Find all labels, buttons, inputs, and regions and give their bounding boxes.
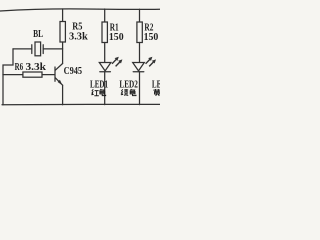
svg-text:LED1: LED1 [90, 80, 108, 91]
svg-text:3.3k: 3.3k [69, 32, 88, 43]
svg-text:BL: BL [33, 29, 43, 40]
svg-text:R6: R6 [15, 62, 24, 73]
svg-text:150: 150 [144, 32, 159, 43]
svg-text:LED2: LED2 [119, 80, 137, 91]
svg-text:LED3: LED3 [152, 80, 160, 91]
svg-text:150: 150 [109, 32, 124, 43]
svg-text:3.3k: 3.3k [26, 62, 47, 73]
svg-text:C945: C945 [64, 66, 83, 77]
